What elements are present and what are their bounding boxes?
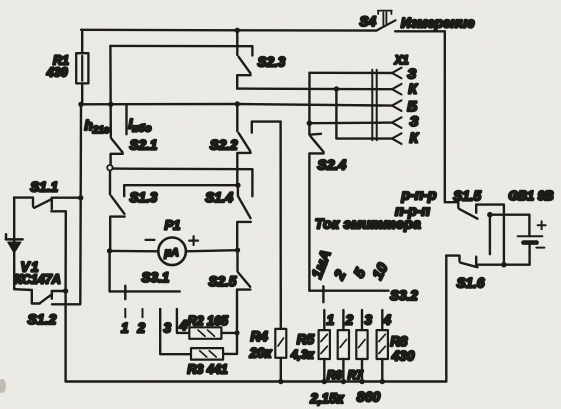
- wire position 3 to R3: [160, 309, 191, 354]
- S3.1 position dash 1: [124, 309, 126, 317]
- meter P1: [110, 236, 238, 265]
- wire battery top link: [490, 215, 530, 236]
- switch S1.2: [14, 289, 65, 303]
- wire rail h2 (y=46): [110, 46, 252, 56]
- svg-text:К: К: [410, 130, 420, 146]
- svg-text:S2.1: S2.1: [130, 137, 158, 152]
- wire pin E1: [310, 72, 394, 75]
- node S1.1 right: [78, 195, 83, 200]
- wire S2.2 alt contact: [252, 122, 281, 133]
- svg-text:S2.2: S2.2: [210, 137, 238, 152]
- node S1.2 right: [63, 288, 68, 293]
- svg-text:Iкбо: Iкбо: [129, 117, 153, 135]
- svg-text:S1.6: S1.6: [457, 276, 485, 291]
- svg-text:R8: R8: [390, 334, 408, 349]
- node R7 bottom: [359, 379, 364, 384]
- svg-text:З: З: [410, 113, 419, 129]
- svg-text:GB1 9В: GB1 9В: [508, 189, 553, 203]
- switch S3.1: [110, 251, 180, 299]
- connector X1 bracket: [372, 70, 376, 140]
- resistor R2: [189, 327, 237, 339]
- wire battery bottom link: [476, 264, 529, 266]
- svg-text:1: 1: [327, 312, 335, 327]
- node S2.4 top: [307, 120, 313, 126]
- svg-text:2,15к: 2,15к: [309, 391, 344, 406]
- wire B rail (h21e / X1 pin B): [81, 104, 393, 106]
- resistor R4: [275, 329, 286, 382]
- switch S1.3: [110, 171, 125, 251]
- connector pin arrows: [392, 68, 402, 144]
- wire position 4 to R2: [177, 309, 189, 333]
- svg-text:S1.4: S1.4: [205, 190, 233, 205]
- svg-text:P1: P1: [165, 217, 181, 232]
- svg-text:430: 430: [391, 348, 415, 363]
- node R2 right: [234, 330, 239, 335]
- S3.1 position dash 2: [142, 309, 144, 317]
- svg-text:S3.2: S3.2: [390, 288, 418, 303]
- svg-text:3: 3: [164, 320, 172, 335]
- svg-text:R4: R4: [251, 329, 269, 344]
- node R5 bottom: [322, 379, 327, 384]
- resistor R6: [338, 310, 349, 381]
- resistor R8: [377, 310, 388, 381]
- node D on B-rail: [108, 102, 113, 107]
- svg-text:З: З: [407, 65, 416, 81]
- wire left vertical A (R1 down): [52, 104, 81, 304]
- svg-text:Измерение: Измерение: [401, 15, 475, 30]
- svg-text:р-п-р: р-п-р: [401, 186, 437, 202]
- wire S4 right vertical: [444, 31, 446, 202]
- svg-text:430: 430: [46, 66, 68, 80]
- node P1 right: [235, 247, 240, 252]
- node top-rail junction: [235, 28, 240, 33]
- wire vertical L (to R4): [279, 122, 282, 329]
- svg-text:R2 165: R2 165: [188, 314, 229, 328]
- svg-text:S1.2: S1.2: [28, 311, 57, 327]
- svg-text:S2.4: S2.4: [317, 157, 346, 173]
- switch S2.4: [309, 123, 323, 291]
- svg-text:К: К: [408, 81, 418, 97]
- svg-text:10: 10: [370, 261, 392, 283]
- battery GB1: [518, 221, 546, 265]
- wire bottom rail: [66, 380, 447, 382]
- node R8 bottom: [380, 379, 385, 384]
- svg-text:1мА: 1мА: [309, 248, 334, 281]
- svg-text:S2.3: S2.3: [258, 55, 286, 70]
- scan noise texture: [0, 0, 1, 1]
- svg-text:Б: Б: [407, 98, 417, 114]
- node B-rail S2.2: [235, 101, 240, 106]
- svg-text:S2.5: S2.5: [209, 274, 237, 289]
- wire vertical D: [109, 46, 112, 138]
- svg-text:h21э: h21э: [85, 118, 110, 136]
- zener diode V1: [6, 198, 23, 290]
- svg-text:2: 2: [345, 312, 354, 327]
- svg-text:µА: µА: [164, 247, 179, 259]
- switch S2.3: [237, 30, 250, 88]
- resistor R5: [319, 310, 330, 381]
- switch S1.6: [446, 256, 477, 268]
- node rail185 right: [235, 183, 240, 188]
- wire X1 box left vertical: [308, 73, 311, 123]
- wire pin E2: [309, 121, 393, 124]
- node bottom link: [501, 262, 507, 268]
- svg-text:4: 4: [179, 318, 188, 333]
- svg-text:S1.5: S1.5: [453, 189, 481, 204]
- wire rail y=185: [124, 184, 238, 186]
- svg-text:20к: 20к: [249, 345, 273, 360]
- node cross top: [487, 212, 493, 218]
- svg-text:S1.3: S1.3: [130, 190, 158, 205]
- switch S2.5: [237, 250, 250, 354]
- node P1 left: [107, 248, 112, 253]
- wire Ikbo contact hook: [125, 104, 127, 134]
- svg-text:п-р-п: п-р-п: [395, 202, 430, 218]
- svg-text:R3 441: R3 441: [187, 362, 227, 376]
- svg-text:R5: R5: [297, 332, 315, 347]
- svg-text:S1.1: S1.1: [30, 180, 58, 195]
- push-button S4: [376, 11, 444, 32]
- svg-text:3: 3: [365, 312, 373, 327]
- svg-text:S3.1: S3.1: [142, 270, 170, 285]
- resistor R3: [191, 348, 237, 360]
- svg-text:S4: S4: [360, 14, 377, 29]
- switch S1.4: [237, 185, 251, 250]
- wire cross link: [489, 215, 491, 255]
- node ring S2.1 bottom: [107, 165, 112, 170]
- wire rail y=169: [113, 169, 253, 197]
- node R4 bottom: [278, 379, 283, 384]
- switch S1.1: [14, 198, 81, 209]
- edge smudge bottom-left: [0, 379, 6, 393]
- svg-text:5: 5: [351, 265, 369, 280]
- svg-text:2: 2: [331, 268, 349, 284]
- svg-text:1: 1: [121, 320, 129, 335]
- wire S1.3 hook contact: [123, 185, 125, 196]
- svg-text:4,3к: 4,3к: [290, 348, 315, 362]
- node R6 bottom: [341, 379, 346, 384]
- node K1 junction: [334, 86, 339, 91]
- node R1 bottom: [78, 102, 83, 107]
- svg-text:2: 2: [137, 320, 146, 335]
- switch S1.5: [445, 202, 504, 265]
- resistor R1: [76, 30, 88, 105]
- switch S2.2: [237, 104, 250, 185]
- wire S1.6 hook: [475, 257, 477, 265]
- switch S2.1: [111, 139, 123, 165]
- resistor R7: [356, 310, 367, 381]
- wire vertical B: [51, 211, 66, 381]
- wire vertical O: [336, 89, 393, 139]
- wire K1 rail: [237, 87, 393, 90]
- wire top rail: [81, 29, 376, 32]
- svg-text:КС147А: КС147А: [14, 272, 60, 286]
- svg-text:4: 4: [382, 312, 391, 327]
- svg-text:860: 860: [357, 389, 381, 405]
- wire right vertical Q: [445, 256, 447, 382]
- selector S3.2 wiper: [309, 286, 388, 302]
